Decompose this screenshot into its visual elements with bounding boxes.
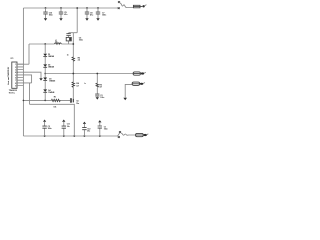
wire bottom bus bbox=[23, 135, 117, 137]
diode D3 bbox=[43, 74, 55, 90]
wire pin1 riser x=29 bbox=[28, 44, 30, 64]
node junction C12/bottom bus bbox=[84, 135, 86, 137]
capacitor C12 bottom 3 bbox=[82, 122, 91, 136]
wire feedback net y=100.4 bbox=[23, 99, 70, 101]
wire pin1 riser connect bbox=[17, 63, 29, 65]
IC U1 box bbox=[7, 58, 18, 95]
capacitor C2 bottom 1 bbox=[42, 120, 52, 137]
node junction C11/bottom bus bbox=[63, 135, 65, 137]
ground arrow bbox=[123, 98, 127, 101]
node junction C7/top bus bbox=[97, 7, 99, 9]
wire jog y=32.7 bbox=[69, 32, 78, 34]
node junction supply drop/top bus bbox=[76, 7, 78, 9]
svg-text:ls: ls bbox=[84, 83, 85, 85]
wire left bus bbox=[22, 8, 24, 136]
wire vertical x=73.3 bbox=[72, 33, 74, 100]
resistor R3 zobel bbox=[96, 83, 103, 88]
fuse F1 bbox=[133, 5, 146, 8]
wire inductor net y=44 bbox=[29, 43, 73, 45]
capacitor C7 bbox=[96, 8, 107, 21]
capacitor C4 series bbox=[70, 99, 80, 105]
wire supply drop x=77.2 bbox=[76, 8, 78, 33]
connector K2 speaker - bbox=[123, 82, 144, 100]
node junction C8/top bus bbox=[86, 7, 88, 9]
svg-text:Verst. met TDA1015 9V: Verst. met TDA1015 9V bbox=[7, 66, 10, 85]
node junction diode column/feedback net bbox=[44, 100, 46, 102]
connector K2 speaker + bbox=[133, 72, 146, 75]
svg-text:R1: R1 bbox=[54, 97, 56, 99]
node junction feedback net/left bus bbox=[23, 100, 25, 102]
capacitor C10 bbox=[43, 8, 53, 21]
IC pin numbers bbox=[15, 64, 16, 87]
node junction diode column/output net bbox=[44, 73, 46, 75]
node junction vertical/output net bbox=[72, 73, 74, 75]
node junction diode column/inductor net bbox=[44, 43, 46, 45]
capacitor C3 zobel bbox=[95, 94, 105, 100]
node junction C2/bottom bus bbox=[44, 135, 46, 137]
svg-text:9V Vers.: 9V Vers. bbox=[9, 93, 16, 95]
node junction vertical/inductor net bbox=[72, 43, 74, 45]
node junction C9/top bus bbox=[60, 7, 62, 9]
svg-text:1N4148: 1N4148 bbox=[48, 91, 54, 94]
svg-text:TDA1015: TDA1015 bbox=[9, 89, 18, 92]
svg-text:1N4148: 1N4148 bbox=[49, 79, 55, 82]
wire pin8 drop bbox=[23, 83, 31, 104]
capacitor C6 + box on supply branch bbox=[66, 33, 71, 57]
wire top supply bus bbox=[23, 7, 117, 9]
diode D2 bbox=[43, 64, 54, 73]
node junction C1/bottom bus bbox=[99, 135, 101, 137]
diode D1 bbox=[43, 44, 54, 64]
resistor R4 lower on x=73.3 bbox=[72, 82, 80, 87]
battery clip and switch top right bbox=[118, 1, 134, 9]
node junction C10/top bus bbox=[45, 7, 47, 9]
svg-text:1N4148: 1N4148 bbox=[48, 55, 54, 58]
capacitor C1 bottom 4 bbox=[98, 120, 109, 136]
wire zobel drop x=97.3 bbox=[96, 74, 98, 94]
IC pin stubs bbox=[17, 64, 23, 85]
capacitor C9 bbox=[59, 8, 68, 21]
inductor L1 bbox=[55, 40, 62, 44]
node junction zobel/output net bbox=[96, 73, 98, 75]
wire bottom feed y=104.3 bbox=[30, 104, 75, 136]
wire output net y=73.5 bbox=[45, 73, 133, 75]
ground stub from IC pin 4 bbox=[17, 72, 43, 80]
wire pin5 drop bbox=[23, 75, 31, 83]
capacitor C8 bbox=[85, 8, 94, 21]
resistor R2 upper on x=73.3 bbox=[72, 57, 81, 62]
connector K1 input bottom right bbox=[118, 131, 149, 138]
diode D4 bbox=[43, 89, 54, 100]
resistor R1 bbox=[51, 97, 60, 109]
node junction feed wire/bottom bus bbox=[73, 135, 75, 137]
svg-text:70u: 70u bbox=[55, 42, 58, 44]
capacitor C11 bottom 2 bbox=[62, 120, 71, 137]
svg-text:1N4148: 1N4148 bbox=[48, 66, 54, 69]
